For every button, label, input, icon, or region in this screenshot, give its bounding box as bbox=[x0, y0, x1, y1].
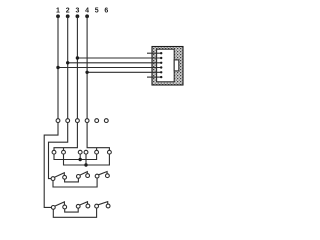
switch S5 left terminal bbox=[76, 204, 80, 208]
terminal dot pin 2 bbox=[66, 14, 70, 18]
wire column 2 vertical bbox=[67, 16, 69, 118]
connector J1 opening bbox=[157, 49, 175, 82]
stub circle C to bus A bbox=[79, 154, 81, 159]
stub circle E to rail4 bbox=[96, 148, 98, 151]
wire S4 left to S6 left link bbox=[53, 208, 96, 217]
stub circle B to rail3 bbox=[63, 148, 65, 151]
svg-text:6: 6 bbox=[104, 8, 108, 15]
wire col4 below circle to rail4 bbox=[87, 123, 109, 151]
switch S4 left terminal bbox=[51, 206, 55, 210]
wire S1 right to S2 left bbox=[65, 179, 79, 182]
switch S1 lever bbox=[55, 173, 65, 178]
terminal dot pin 1 bbox=[56, 14, 60, 18]
wire col3 below circle to rail3 bbox=[54, 123, 77, 151]
switch S3 left terminal bbox=[95, 174, 99, 178]
junction bus B bbox=[84, 163, 87, 166]
svg-text:1: 1 bbox=[56, 8, 60, 15]
switch S4 right terminal bbox=[63, 205, 67, 209]
wire column 3 vertical bbox=[76, 16, 78, 118]
stub circle D to bus B bbox=[85, 154, 87, 165]
switch S6 right terminal bbox=[106, 204, 110, 208]
terminal dot pin 3 bbox=[76, 14, 80, 18]
stub wire jack pin 1 bbox=[147, 52, 161, 54]
contact circle D bbox=[84, 150, 88, 154]
switch S3 right terminal bbox=[106, 174, 110, 178]
stub wire jack pin 6 bbox=[147, 76, 161, 78]
jack contact dot 4 bbox=[160, 66, 162, 68]
svg-text:2: 2 bbox=[66, 8, 70, 15]
svg-text:5: 5 bbox=[95, 8, 99, 15]
wire S4 right to S5 left bbox=[65, 208, 79, 212]
terminal circle row1 col3 bbox=[76, 119, 80, 123]
svg-text:4: 4 bbox=[85, 8, 89, 15]
wire to jack pin 4 bbox=[58, 67, 161, 69]
terminal circle row1 col5 bbox=[95, 119, 99, 123]
wire to jack pin 5 bbox=[87, 71, 161, 73]
switch S6 lever bbox=[98, 202, 108, 205]
switch S4 lever bbox=[55, 202, 65, 206]
contact circle A bbox=[52, 150, 56, 154]
switch S1 left terminal bbox=[51, 177, 55, 181]
junction col2 bbox=[66, 61, 69, 64]
jack contact dot 2 bbox=[160, 57, 162, 59]
bus B wire bbox=[64, 154, 110, 165]
contact circle C bbox=[78, 150, 82, 154]
switch S5 right terminal bbox=[86, 204, 90, 208]
bus A wire bbox=[54, 154, 97, 159]
contact circle E bbox=[95, 150, 99, 154]
connector J1 body bbox=[152, 47, 183, 86]
contact circle F bbox=[108, 150, 112, 154]
switch S6 left terminal bbox=[95, 204, 99, 208]
terminal circle row1 col4 bbox=[85, 119, 89, 123]
junction col1 bbox=[56, 66, 59, 69]
jack contact dot 3 bbox=[160, 62, 162, 64]
junction col4 bbox=[85, 71, 88, 74]
wire to jack pin 3 bbox=[68, 62, 162, 64]
switch S2 lever bbox=[80, 172, 87, 176]
jack contact dot 1 bbox=[160, 52, 162, 54]
jack contact dot 5 bbox=[160, 71, 162, 73]
svg-text:3: 3 bbox=[75, 8, 79, 15]
terminal dot pin 4 bbox=[85, 14, 89, 18]
contact circle B bbox=[62, 150, 66, 154]
junction col3 bbox=[76, 56, 79, 59]
wire S1 left to S3 left link bbox=[53, 178, 97, 187]
wire column 1 vertical bbox=[57, 16, 59, 118]
switch S1 right terminal bbox=[63, 175, 67, 179]
jack contact dot 6 bbox=[160, 76, 162, 78]
connector J1 latch tab bbox=[174, 60, 179, 71]
wire col2 below circle with bend to bus2 bbox=[49, 123, 68, 179]
junction bus A bbox=[79, 158, 82, 161]
wire col1 below circle with bend to bus1 bbox=[44, 123, 58, 208]
terminal circle row1 col1 bbox=[56, 119, 60, 123]
terminal circle row1 col2 bbox=[66, 119, 70, 123]
terminal circle row1 col6 bbox=[104, 119, 108, 123]
switch S3 lever bbox=[99, 172, 108, 175]
switch S2 right terminal bbox=[86, 174, 90, 178]
switch S5 lever bbox=[80, 202, 88, 205]
wire to jack pin 2 bbox=[77, 57, 161, 59]
switch S2 left terminal bbox=[77, 175, 81, 179]
wire column 4 vertical bbox=[86, 16, 88, 118]
